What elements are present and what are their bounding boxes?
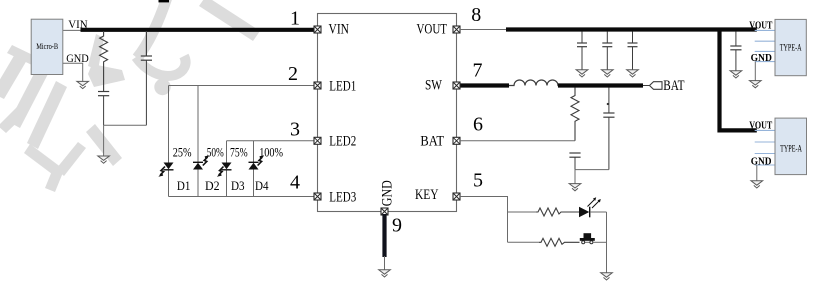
wire branch A bbox=[508, 211, 537, 213]
wire LED1 rail bbox=[169, 85, 315, 87]
svg-text:3: 3 bbox=[290, 119, 300, 141]
svg-text:D3: D3 bbox=[231, 178, 245, 193]
wire to ground bbox=[103, 125, 105, 156]
capacitor C7 bbox=[603, 88, 614, 170]
wire LED2 rail bbox=[227, 140, 315, 142]
wire D1 branch bbox=[168, 86, 170, 197]
resistor R2 bbox=[571, 88, 579, 141]
LED D4 bbox=[249, 155, 265, 169]
pin 5 KEY bbox=[453, 193, 460, 200]
wire input net junction bbox=[104, 124, 147, 126]
svg-text:D1: D1 bbox=[177, 178, 191, 193]
wire D2 branch bbox=[197, 86, 199, 197]
pin 2 LED1 bbox=[314, 82, 321, 89]
cropped heading glyph at top bbox=[159, 0, 170, 2]
wire LED3 rail bbox=[169, 196, 315, 198]
svg-text:4: 4 bbox=[290, 172, 300, 194]
pin 7 SW bbox=[453, 82, 460, 89]
ground C8 bbox=[730, 71, 742, 78]
svg-text:GND: GND bbox=[751, 156, 772, 167]
switch S1 push button bbox=[580, 233, 607, 244]
svg-text:50%: 50% bbox=[207, 145, 224, 160]
ground BAT net bbox=[569, 184, 581, 191]
capacitor C6 bbox=[569, 153, 580, 170]
ground C3 bbox=[576, 70, 588, 77]
wire branch join bbox=[606, 212, 608, 273]
svg-text:1: 1 bbox=[290, 7, 300, 29]
ground C5 bbox=[627, 70, 639, 77]
svg-text:75%: 75% bbox=[230, 145, 248, 160]
ground micro-B bbox=[77, 81, 89, 88]
connector J1 Micro-B bbox=[31, 19, 63, 74]
wire VOUT stub bbox=[460, 29, 508, 31]
wire thick VIN rail bbox=[81, 28, 314, 32]
svg-text:D2: D2 bbox=[205, 178, 220, 193]
svg-text:BAT: BAT bbox=[420, 133, 444, 149]
svg-text:LED2: LED2 bbox=[329, 134, 356, 150]
LED D3 bbox=[217, 163, 232, 177]
svg-text:Micro-B: Micro-B bbox=[36, 41, 58, 51]
wire BAT net bottom bbox=[575, 169, 609, 171]
LED D2 bbox=[193, 155, 209, 169]
watermark letter J stem bbox=[137, 0, 168, 58]
capacitor C3 bbox=[577, 32, 587, 70]
pin 3 LED2 bbox=[314, 137, 321, 144]
pin 6 BAT bbox=[453, 137, 460, 144]
node BAT terminal bbox=[643, 82, 662, 90]
svg-text:GND: GND bbox=[751, 53, 773, 64]
resistor R1 bbox=[100, 31, 108, 91]
svg-text:KEY: KEY bbox=[415, 187, 439, 203]
wire to ground bbox=[574, 170, 576, 184]
watermark letter J ball bbox=[154, 79, 170, 95]
capacitor C4 bbox=[602, 32, 612, 70]
wire KEY pin bbox=[460, 197, 508, 243]
svg-text:100%: 100% bbox=[259, 145, 283, 160]
svg-text:5: 5 bbox=[473, 169, 483, 191]
watermark stroke upper right bbox=[199, 0, 260, 41]
svg-text:7: 7 bbox=[473, 60, 483, 82]
svg-text:2: 2 bbox=[288, 63, 298, 85]
svg-text:VIN: VIN bbox=[329, 22, 350, 38]
wire thick SW stub bbox=[461, 83, 510, 87]
svg-text:8: 8 bbox=[471, 4, 481, 26]
capacitor C2 bbox=[141, 31, 152, 125]
svg-text:BAT: BAT bbox=[663, 78, 684, 94]
wire thick branch to USB2 bbox=[720, 30, 757, 131]
svg-text:TYPE-A: TYPE-A bbox=[780, 144, 802, 154]
IC U1 body bbox=[318, 14, 457, 212]
wire thick SW-BAT bbox=[558, 83, 643, 87]
pin 4 LED3 bbox=[314, 193, 321, 200]
wire BAT pin bbox=[460, 140, 575, 142]
wire D3 branch bbox=[226, 141, 228, 197]
resistor R4 bbox=[539, 238, 580, 246]
ground J2 bbox=[750, 81, 762, 88]
svg-text:SW: SW bbox=[425, 78, 442, 94]
watermark letter N strokes bbox=[9, 34, 125, 192]
capacitor C1 bbox=[98, 92, 109, 126]
wire GND stub bbox=[63, 63, 83, 81]
connector J3 TYPE-A lower bbox=[755, 118, 807, 175]
wire branch B bbox=[508, 241, 540, 243]
svg-text:9: 9 bbox=[392, 215, 402, 237]
svg-text:VOUT: VOUT bbox=[749, 21, 772, 32]
ground J3 bbox=[751, 181, 763, 188]
wire VIN stub from micro-B bbox=[63, 29, 90, 31]
wire thick VOUT rail bbox=[506, 27, 757, 31]
svg-text:TYPE-A: TYPE-A bbox=[780, 43, 802, 53]
svg-text:25%: 25% bbox=[173, 145, 192, 160]
svg-text:LED1: LED1 bbox=[329, 78, 356, 94]
connector J2 TYPE-A upper bbox=[755, 19, 807, 75]
wire GND J2 bbox=[754, 62, 756, 81]
capacitor C8 bbox=[730, 32, 741, 71]
svg-text:D4: D4 bbox=[255, 178, 269, 193]
svg-text:VIN: VIN bbox=[68, 19, 88, 31]
watermark letter I stroke bbox=[0, 45, 39, 133]
capacitor C5 bbox=[628, 32, 638, 70]
ground input net bbox=[98, 156, 110, 163]
pin 9 GND bbox=[381, 208, 388, 215]
ground C4 bbox=[602, 70, 614, 77]
pin 8 VOUT bbox=[453, 26, 460, 33]
svg-text:6: 6 bbox=[473, 113, 483, 135]
svg-text:GND: GND bbox=[380, 180, 396, 206]
LED D1 bbox=[158, 163, 173, 177]
wire GND J3 bbox=[756, 165, 758, 181]
LED D5 bbox=[579, 197, 607, 217]
svg-text:VOUT: VOUT bbox=[417, 22, 448, 38]
watermark letter J hook bbox=[136, 56, 186, 76]
wire D4 branch bbox=[253, 141, 255, 197]
wire thick GND stem bbox=[382, 214, 386, 257]
ground pin9 bbox=[379, 270, 391, 277]
ground KEY net bbox=[601, 273, 613, 280]
inductor L1 bbox=[509, 80, 560, 86]
resistor R3 bbox=[536, 208, 579, 216]
svg-text:LED3: LED3 bbox=[329, 189, 356, 205]
svg-text:VOUT: VOUT bbox=[749, 120, 772, 131]
pin 1 VIN bbox=[314, 26, 321, 33]
node polarity dot bbox=[607, 103, 609, 105]
